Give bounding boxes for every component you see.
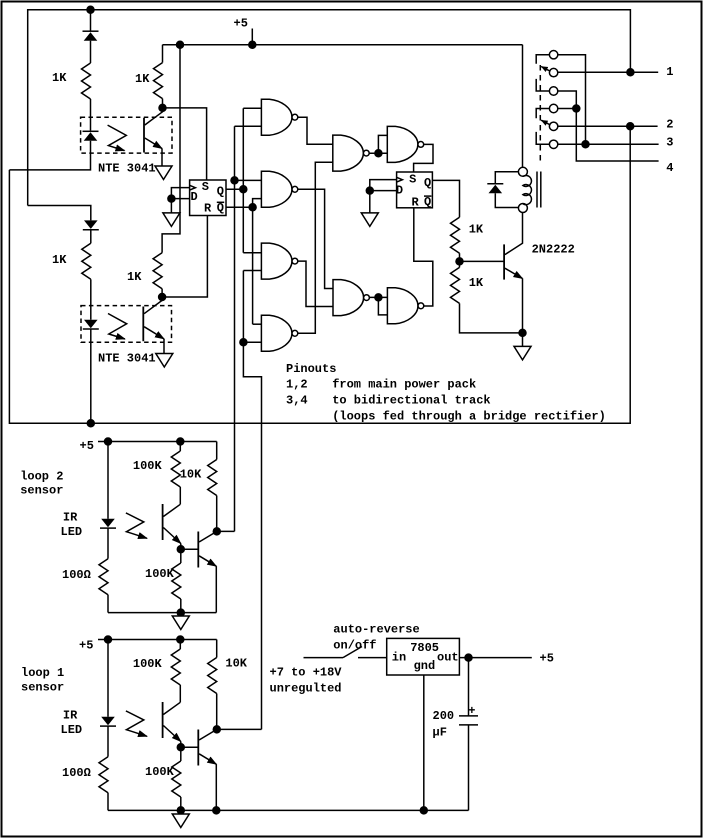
node: opto2 output <box>159 294 166 301</box>
wire <box>90 279 92 319</box>
svg-text:Q: Q <box>424 195 431 209</box>
node <box>366 187 373 194</box>
wire: gate A out to E in1 <box>298 117 333 144</box>
regulator U5 7805 box <box>387 638 460 675</box>
NAND gate A <box>261 99 297 135</box>
svg-text:from main power pack: from main power pack <box>332 378 476 392</box>
NAND gate G <box>333 280 369 316</box>
svg-text:1: 1 <box>666 65 673 79</box>
wire: gate H out to latch U4 R <box>414 208 433 306</box>
node: opto1 output <box>159 104 166 111</box>
bus: loop2 signal <box>234 126 236 531</box>
node: loop1 output <box>213 726 220 733</box>
wire <box>170 199 172 213</box>
svg-text:10K: 10K <box>225 657 247 671</box>
wire: +5 rail <box>163 44 523 46</box>
node <box>177 546 184 553</box>
wire: gate B out to G in1 <box>298 189 333 288</box>
node <box>582 141 589 148</box>
node <box>249 204 256 211</box>
wire: terminal-1 top rail <box>28 10 631 206</box>
relay actuator dashed link <box>539 65 541 163</box>
LED in optocoupler U1 <box>83 131 99 141</box>
wire: contact1 to terminal 3 <box>558 55 586 145</box>
node <box>105 438 112 445</box>
ground Q1 emitter <box>514 346 531 360</box>
switch S1 <box>304 657 344 659</box>
optocoupler U1 NTE3041 body <box>81 117 172 153</box>
wire <box>460 303 523 333</box>
wire: base wire <box>460 260 504 262</box>
resistor R4 1K <box>153 253 162 289</box>
resistor 10K loop1 <box>216 640 218 658</box>
wire: gate C inputs <box>243 252 261 254</box>
svg-text:µF: µF <box>433 726 447 740</box>
wire: latch U3 Q out <box>226 188 243 190</box>
wire: gate A inputs <box>243 107 261 109</box>
wire <box>162 99 164 108</box>
loop2 transistor T2 <box>181 548 199 550</box>
ground loop2 <box>172 616 189 630</box>
wire: loop1 +5 rail <box>98 639 217 641</box>
optocoupler U2 NTE3041 body <box>81 306 172 343</box>
node <box>240 339 247 346</box>
resistor 100ohm loop2 <box>99 559 108 595</box>
opto U1 light arrow <box>108 125 127 151</box>
wire <box>468 725 470 811</box>
node: top rail tap <box>87 6 94 13</box>
node <box>240 186 247 193</box>
wire: gate D out to E in2 <box>298 162 333 333</box>
wire: loop2 output to bus <box>217 530 235 532</box>
wire <box>90 41 92 63</box>
svg-text:sensor: sensor <box>21 681 64 695</box>
ground latch U3 <box>163 213 180 227</box>
svg-text:D: D <box>396 184 403 198</box>
diode D1 <box>83 31 99 41</box>
svg-text:Q: Q <box>217 184 224 198</box>
node <box>177 41 184 48</box>
svg-text:100Ω: 100Ω <box>62 766 91 780</box>
wire <box>216 694 218 730</box>
svg-text:S: S <box>202 180 209 194</box>
wire: contact3 to terminal 4 <box>558 91 659 161</box>
node <box>519 329 526 336</box>
wire: chain2 from top rail <box>28 206 91 221</box>
NAND gate E <box>333 135 369 171</box>
transistor Q1 2N2222 <box>503 244 505 279</box>
IR LED loop2 <box>100 519 116 528</box>
relay K1 coil terminals <box>518 167 527 176</box>
wire <box>216 496 218 532</box>
svg-text:3: 3 <box>666 136 673 150</box>
relay contacts pole1 fixed a <box>549 51 557 59</box>
wire: +5 stub <box>251 29 253 45</box>
relay K1 core <box>536 172 538 208</box>
wire: latch U3 clk/D tie <box>171 188 189 199</box>
bus: loop1 signal <box>243 271 261 730</box>
wire: opto2 output to latch1 R <box>162 216 207 298</box>
svg-text:to bidirectional track: to bidirectional track <box>332 394 490 408</box>
node <box>213 807 220 814</box>
wire <box>522 333 524 347</box>
svg-text:+5: +5 <box>80 439 94 453</box>
wire <box>107 726 109 757</box>
svg-text:S: S <box>409 173 416 187</box>
opto U2 light arrow <box>108 314 127 340</box>
node <box>168 195 175 202</box>
relay contacts pole1 common arm <box>549 68 557 76</box>
svg-text:LED: LED <box>61 525 83 539</box>
wire <box>180 810 182 814</box>
svg-text:(loops fed through a bridge re: (loops fed through a bridge rectifier) <box>332 410 606 424</box>
wire: contact4 <box>558 108 577 110</box>
opto U2 phototransistor <box>142 307 144 342</box>
wire: latch U4 clk/D tie <box>370 180 397 191</box>
node <box>177 744 184 751</box>
wire: gate E out to F <box>369 152 387 154</box>
node <box>249 41 256 48</box>
svg-text:1K: 1K <box>52 253 67 267</box>
svg-text:3,4: 3,4 <box>286 394 308 408</box>
diode D2 <box>83 220 99 229</box>
wire: contact2 to terminal 1 <box>558 71 658 73</box>
svg-text:auto-reverse: auto-reverse <box>333 623 419 637</box>
resistor 100ohm loop1 <box>99 757 108 793</box>
NAND gate C <box>261 243 297 279</box>
svg-text:IR: IR <box>63 709 78 723</box>
svg-text:in: in <box>392 651 406 665</box>
wire: 7805 gnd <box>423 675 425 811</box>
wire: LED2 cathode down to bottom wire <box>90 329 92 423</box>
wire: gate F out to latch U4 S <box>414 144 433 172</box>
resistor R6 1K <box>459 261 461 267</box>
wire <box>161 289 163 297</box>
loop1 light arrow <box>126 711 147 736</box>
svg-text:100K: 100K <box>145 567 175 581</box>
resistor R1 1K <box>82 63 91 99</box>
svg-text:sensor: sensor <box>20 484 63 498</box>
ground latch U4 <box>361 213 378 227</box>
relay contacts pole2 common arm <box>549 122 557 130</box>
svg-text:Q: Q <box>217 201 224 215</box>
loop2 phototransistor T1 <box>162 504 164 540</box>
svg-text:NTE 3041: NTE 3041 <box>98 162 156 176</box>
wire: opto1 output to latch1 S <box>163 108 207 180</box>
svg-text:unregulted: unregulted <box>270 682 342 696</box>
loop1 phototransistor T3 <box>162 702 164 738</box>
wire: terminal-2 bottom/left loop <box>9 126 630 423</box>
svg-text:100K: 100K <box>133 459 163 473</box>
node <box>627 123 634 130</box>
wire <box>90 99 92 131</box>
NAND gate H <box>387 288 423 324</box>
svg-text:4: 4 <box>666 161 673 175</box>
relay K1 coil <box>523 175 532 204</box>
svg-text:Q: Q <box>424 176 431 190</box>
svg-text:+5: +5 <box>79 639 93 653</box>
wire: contact5 to terminal 2 <box>558 125 658 127</box>
NAND gate F <box>387 126 423 162</box>
resistor 100K loop2 <box>179 442 181 452</box>
wire: gate D inputs <box>253 323 262 325</box>
wire: chain1 upper <box>90 10 92 32</box>
flyback diode D3 <box>495 172 518 183</box>
wire: loop2 +5 rail <box>98 441 217 443</box>
wire <box>459 253 461 261</box>
svg-text:+7 to +18V: +7 to +18V <box>270 666 343 680</box>
wire <box>180 797 182 810</box>
node <box>375 294 382 301</box>
svg-text:R: R <box>412 195 420 209</box>
svg-text:+5: +5 <box>234 17 248 31</box>
relay contacts pole2 fixed b <box>549 140 557 148</box>
wire: latch U3 Qbar out <box>226 206 253 208</box>
relay contacts pole2 fixed a <box>549 104 557 112</box>
resistor R3 1K <box>82 243 91 279</box>
wire: contact6 to terminal 3 <box>558 143 659 145</box>
svg-text:7805: 7805 <box>410 641 439 655</box>
svg-text:200: 200 <box>433 709 455 723</box>
wire: pullup R2 feed <box>162 45 164 63</box>
bus: Q signal <box>242 108 244 253</box>
resistor 100K loop1 <box>179 640 181 650</box>
node <box>627 69 634 76</box>
node <box>177 636 184 643</box>
svg-text:1K: 1K <box>135 72 150 86</box>
capacitor C1 200uF <box>459 715 478 717</box>
bus: Qbar signal <box>252 207 254 324</box>
wire: gate C out to G in2 <box>298 261 333 306</box>
wire: pullup R4 feed <box>162 45 180 253</box>
resistor 100K lower loop1 <box>180 747 182 761</box>
loop2 light arrow <box>126 513 147 538</box>
wire <box>369 191 371 213</box>
relay contacts pole1 fixed b <box>549 87 557 95</box>
node: Q1 base node <box>456 258 463 265</box>
wire: loop1 output to bus <box>217 728 262 730</box>
svg-text:Pinouts: Pinouts <box>286 362 336 376</box>
svg-text:+: + <box>468 704 475 718</box>
wire <box>107 793 109 811</box>
resistor R5 1K <box>451 217 460 253</box>
svg-text:1K: 1K <box>52 71 67 85</box>
svg-text:1K: 1K <box>127 270 142 284</box>
wire: +5 to relay coil <box>522 45 524 168</box>
node <box>177 438 184 445</box>
latch U3 box <box>190 180 226 216</box>
wire <box>107 528 109 559</box>
ground opto U1 <box>155 166 172 180</box>
wire: gate G out to H <box>369 296 387 298</box>
svg-text:NTE 3041: NTE 3041 <box>98 352 156 366</box>
node <box>375 150 382 157</box>
svg-text:2: 2 <box>666 117 673 131</box>
svg-text:R: R <box>204 202 212 216</box>
svg-text:D: D <box>191 190 198 204</box>
ground loop1 <box>172 814 189 828</box>
wire: loop1 ground rail <box>108 809 469 811</box>
NAND gate D <box>261 315 297 351</box>
resistor 100K lower loop2 <box>180 549 182 563</box>
wire: 7805 out <box>459 657 531 659</box>
wire: IR LED branch <box>107 442 109 519</box>
svg-text:1K: 1K <box>469 223 484 237</box>
node <box>465 654 472 661</box>
wire <box>179 685 181 702</box>
node <box>420 807 427 814</box>
node <box>231 177 238 184</box>
NAND gate B <box>261 171 297 207</box>
wire: cap branch <box>468 658 470 716</box>
svg-text:LED: LED <box>61 723 83 737</box>
node: loop2 output <box>213 528 220 535</box>
svg-text:1,2: 1,2 <box>286 378 308 392</box>
node <box>105 636 112 643</box>
svg-text:gnd: gnd <box>414 659 436 673</box>
svg-text:+5: +5 <box>540 652 554 666</box>
svg-text:loop 2: loop 2 <box>20 470 63 484</box>
wire <box>180 599 182 613</box>
svg-text:loop 1: loop 1 <box>21 666 64 680</box>
wire: latch U4 Q to R5 <box>432 180 459 217</box>
node <box>573 105 580 112</box>
wire: loop2 ground rail <box>108 612 216 614</box>
svg-text:out: out <box>437 651 459 665</box>
ground opto U2 <box>156 354 173 368</box>
opto U1 phototransistor <box>143 118 145 153</box>
svg-text:100Ω: 100Ω <box>62 568 91 582</box>
resistor 10K loop2 <box>216 442 218 460</box>
wire <box>90 230 92 244</box>
svg-text:1K: 1K <box>469 276 484 290</box>
wire: IR LED branch <box>107 640 109 717</box>
wire <box>179 487 181 504</box>
LED in optocoupler U2 <box>83 320 99 329</box>
svg-text:10K: 10K <box>180 468 202 482</box>
svg-text:2N2222: 2N2222 <box>532 243 575 257</box>
node <box>177 807 184 814</box>
wire: gate B inputs <box>235 179 262 181</box>
wire <box>180 613 182 616</box>
node <box>87 420 94 427</box>
loop1 transistor T4 <box>181 746 199 748</box>
svg-text:100K: 100K <box>133 657 163 671</box>
svg-text:IR: IR <box>63 511 78 525</box>
node <box>177 609 184 616</box>
latch U4 box <box>397 172 433 208</box>
svg-text:100K: 100K <box>145 765 175 779</box>
IR LED loop1 <box>100 717 116 726</box>
wire: LED1 cathode to left rail <box>9 141 90 170</box>
wire <box>107 595 109 613</box>
resistor R2 1K <box>154 63 163 99</box>
